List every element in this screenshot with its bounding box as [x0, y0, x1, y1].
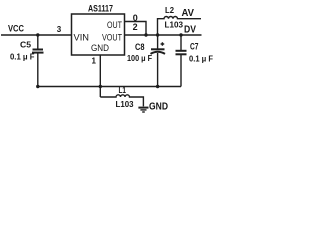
node junction VCC/C5 — [36, 33, 39, 36]
wire VOUT output rail — [125, 34, 202, 36]
svg-text:DV: DV — [184, 25, 196, 36]
node junction OUT/rail — [144, 33, 147, 36]
polarity plus mark (C8) — [161, 42, 165, 46]
svg-text:L1: L1 — [119, 86, 127, 95]
svg-text:0.1 μ F: 0.1 μ F — [10, 53, 35, 62]
ground symbol — [138, 108, 148, 112]
svg-text:VCC: VCC — [8, 24, 24, 35]
svg-text:0.1 μ F: 0.1 μ F — [189, 54, 213, 63]
node junction C8/L2 — [156, 33, 159, 36]
svg-text:L2: L2 — [165, 5, 174, 15]
inductor L1 — [100, 95, 143, 107]
svg-text:VIN: VIN — [74, 32, 90, 42]
node junction C5/rail — [36, 85, 39, 88]
svg-text:1: 1 — [91, 56, 96, 65]
svg-text:C5: C5 — [20, 40, 32, 49]
svg-text:AS1117: AS1117 — [88, 4, 113, 15]
svg-text:L103: L103 — [165, 19, 184, 29]
svg-text:3: 3 — [57, 25, 62, 34]
wire GND pin down through rail — [99, 55, 101, 97]
svg-text:L103: L103 — [116, 99, 134, 109]
inductor L2 — [158, 17, 202, 36]
wire OUT pin to output rail — [125, 22, 147, 36]
node junction GND pin/rail — [99, 85, 102, 88]
wire bottom ground rail — [38, 86, 181, 88]
svg-text:GND: GND — [91, 43, 109, 53]
svg-text:C7: C7 — [190, 42, 199, 52]
node junction C7 — [179, 33, 182, 36]
capacitor C8 (electrolytic 100uF) — [151, 35, 166, 87]
svg-text:2: 2 — [133, 22, 138, 32]
svg-text:VOUT: VOUT — [102, 32, 122, 42]
voltage regulator IC AS1117 body — [72, 14, 125, 55]
svg-text:100 μ F: 100 μ F — [127, 54, 152, 63]
capacitor C7 — [176, 35, 187, 87]
capacitor C5 — [32, 35, 44, 87]
svg-text:OUT: OUT — [107, 20, 122, 30]
svg-text:C8: C8 — [135, 42, 145, 52]
node junction C8/rail — [156, 85, 159, 88]
svg-text:AV: AV — [182, 8, 195, 19]
svg-text:GND: GND — [149, 101, 168, 112]
wire VCC to VIN — [1, 34, 72, 36]
